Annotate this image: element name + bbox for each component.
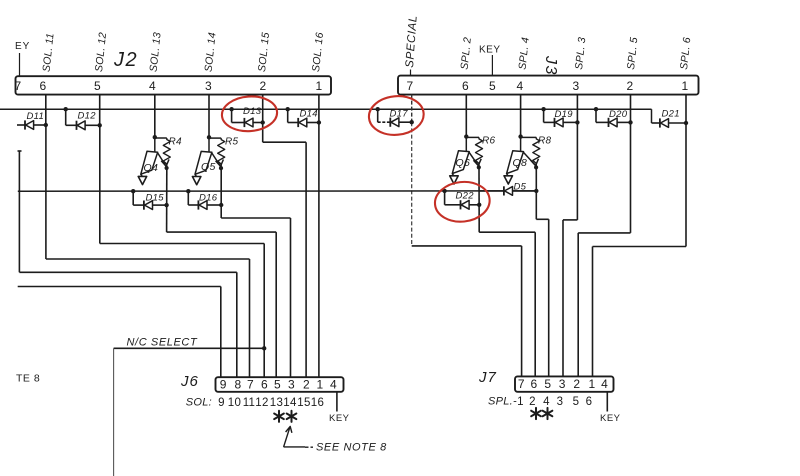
wire Q8 collector to J7 pin 5 [536,168,548,377]
svg-text:R5: R5 [225,137,239,148]
svg-text:4: 4 [149,79,156,93]
svg-text:9: 9 [218,397,225,409]
diode D16 [186,189,223,210]
svg-text:J3: J3 [542,55,559,76]
wire J3 pin 7 / SPECIAL wire [412,95,522,377]
label SOL.14 (rotated) [203,32,219,73]
wire J3 pin 4 stub [520,95,522,137]
svg-text:D19: D19 [555,109,574,120]
svg-text:J6: J6 [180,373,199,390]
label J7 [478,369,497,386]
connector J3 [398,76,699,95]
svg-text:1: 1 [517,396,524,408]
wire J2 pin 4 stub [154,95,156,138]
svg-text:R6: R6 [482,136,496,147]
label SPL.4 (rotated) [517,37,532,71]
svg-text:EY: EY [15,41,30,52]
svg-text:SPL.-: SPL.- [488,396,517,408]
diode D11 [17,111,48,130]
svg-text:5: 5 [94,79,101,93]
resistor R6 [466,136,495,168]
svg-text:5: 5 [274,378,281,392]
svg-text:7: 7 [407,79,414,93]
asterisks J6 (see note) [274,411,296,422]
wire J3 pin 1 wire [593,95,687,377]
wire N/C SELECT [114,346,267,476]
label J3 (rotated) [542,55,559,76]
svg-text:4: 4 [330,378,337,392]
diode D12 [63,107,101,130]
svg-text:D21: D21 [662,109,680,120]
wire J3 pin 3 wire [563,95,577,377]
label SOL.15 (rotated) [256,32,272,73]
diode D22 [442,189,481,210]
svg-text:TE 8: TE 8 [16,373,40,385]
svg-text:D20: D20 [609,109,628,120]
svg-text:11: 11 [243,397,256,409]
note arrow SEE NOTE 8 [284,426,387,453]
svg-text:7: 7 [518,377,525,391]
connector J2 [15,76,331,94]
svg-text:2: 2 [573,377,580,391]
wire J2 pin 5 stub [99,95,101,126]
svg-text:D16: D16 [199,193,218,204]
svg-text:SOL. 12: SOL. 12 [93,32,109,73]
svg-text:3: 3 [205,79,212,93]
svg-text:6: 6 [586,396,593,408]
svg-text:5: 5 [489,79,496,93]
resistor R8 [521,136,552,168]
label J6 SOL pin numbers [186,397,324,410]
wire J2 pin 2 jog to J6 pin 2 [263,123,306,378]
wire left line to J6 pin 9 [18,287,221,378]
wire Q4 collector to J6 pin 5 [167,169,277,378]
wire mid bus [18,190,537,192]
svg-text:Q8: Q8 [513,157,528,169]
label SPECIAL (rotated) [404,15,420,76]
label SPL.6 (rotated) [678,37,693,71]
svg-text:D15: D15 [146,193,165,204]
label J7 SPL pin numbers [488,396,592,409]
svg-text:SPL. 4: SPL. 4 [517,37,532,71]
transistor Q5 [192,135,223,185]
svg-text:D13: D13 [243,106,262,117]
svg-text:1: 1 [316,79,323,93]
svg-text:SPL. 3: SPL. 3 [573,37,588,71]
diode D20 [594,107,633,127]
resistor R4 [155,137,182,168]
connector J7 [515,376,614,391]
svg-text:D5: D5 [514,182,527,193]
diode D19 [541,107,579,127]
highlight circle around D13 [221,95,278,133]
label J6 [180,373,199,390]
label SOL.11 (rotated) [41,32,57,72]
svg-text:16: 16 [311,397,324,409]
svg-text:D17: D17 [390,109,409,120]
svg-text:4: 4 [543,396,550,408]
svg-text:SOL. 16: SOL. 16 [310,32,326,73]
svg-text:7: 7 [247,378,254,392]
svg-text:SPL. 2: SPL. 2 [459,37,474,71]
svg-text:4: 4 [601,377,608,391]
svg-text:J2: J2 [113,49,138,71]
svg-text:R4: R4 [169,137,183,148]
svg-text:3: 3 [573,79,580,93]
svg-text:14: 14 [283,397,297,409]
svg-text:2: 2 [303,378,310,392]
highlight circle around D22 [433,179,492,224]
diode D14 [286,107,322,127]
svg-text:D12: D12 [78,111,97,122]
svg-text:KEY: KEY [479,45,501,56]
transistor Q4 [138,135,169,185]
svg-text:J7: J7 [478,369,497,386]
svg-text:8: 8 [235,378,242,392]
diode D21 [652,109,689,128]
svg-text:15: 15 [297,397,310,409]
svg-text:6: 6 [531,377,538,391]
diode D13 [229,106,264,127]
wire J3 pin 6 stub [465,95,467,137]
highlight circle around D17 [367,94,425,137]
svg-text:SOL. 14: SOL. 14 [203,32,219,73]
svg-text:10: 10 [228,397,241,409]
svg-text:6: 6 [462,79,469,93]
wire J2 pin 1 wire [318,95,320,378]
svg-text:13: 13 [270,397,283,409]
diode D5 [479,182,538,196]
svg-text:2: 2 [529,396,536,408]
svg-text:N/C SELECT: N/C SELECT [127,337,198,349]
svg-text:R8: R8 [538,136,552,147]
svg-text:6: 6 [40,79,47,93]
label J6 KEY [329,392,350,424]
svg-text:5: 5 [573,396,580,408]
svg-text:SOL. 13: SOL. 13 [148,32,164,73]
label J7 KEY [600,392,621,424]
svg-text:D14: D14 [300,109,318,120]
svg-text:3: 3 [557,396,564,408]
svg-text:SPL. 5: SPL. 5 [625,37,640,71]
diode D17 [376,107,414,127]
svg-text:D11: D11 [27,111,45,122]
label KEY (J2 pin 7) [15,41,30,76]
svg-text:5: 5 [544,377,551,391]
label J2 [113,49,138,71]
svg-text:SPL. 6: SPL. 6 [678,37,693,71]
svg-text:1: 1 [317,378,324,392]
wire top bus [0,109,652,123]
wire J2 pin 6 stub [45,95,47,125]
svg-text:SEE NOTE 8: SEE NOTE 8 [316,442,387,454]
svg-text:1: 1 [589,377,596,391]
svg-text:3: 3 [288,378,295,392]
wire J2 pin 2 stub [262,95,264,123]
transistor Q6 [450,134,482,184]
svg-text:SOL. 15: SOL. 15 [256,32,272,73]
label SOL.12 (rotated) [93,32,109,73]
label N/C SELECT [127,337,198,349]
svg-text:KEY: KEY [329,413,350,424]
note TE B (cut off) [16,373,40,385]
wire Q5 collector to J6 pin 3 [221,169,290,378]
asterisks J7 (see note) [531,408,552,419]
svg-text:Q5: Q5 [201,161,216,173]
label SPL.3 (rotated) [573,37,588,71]
svg-text:2: 2 [627,79,634,93]
wire J2 pin 3 stub [208,95,210,138]
svg-text:4: 4 [517,79,524,93]
svg-text:SPECIAL: SPECIAL [404,15,420,68]
connector J6 [216,377,344,392]
svg-text:KEY: KEY [600,413,621,424]
svg-text:SOL. 11: SOL. 11 [41,32,57,72]
label SPL.2 (rotated) [459,37,474,71]
label SOL.16 (rotated) [310,32,326,73]
svg-text:D22: D22 [456,191,475,202]
svg-text:SOL:: SOL: [186,397,212,409]
transistor Q8 [504,134,539,184]
wire J2 pin 6 to J6 pin 7 [46,125,250,378]
svg-text:6: 6 [261,378,268,392]
svg-text:3: 3 [559,377,566,391]
svg-text:9: 9 [220,378,227,392]
wire J2 pin 5 to J6 pin 6 [100,125,264,377]
svg-text:Q6: Q6 [456,157,471,169]
resistor R5 [209,137,239,168]
svg-text:1: 1 [682,79,689,93]
svg-text:Q4: Q4 [144,162,159,174]
label SPL.5 (rotated) [625,37,640,71]
svg-text:2: 2 [260,79,267,93]
svg-text:7: 7 [15,79,22,93]
label KEY (J3 pin 5) [479,45,501,76]
label SOL.13 (rotated) [148,32,164,73]
svg-text:12: 12 [255,397,268,409]
wire left line to J6 pin 8 [18,151,237,378]
diode D15 [131,189,169,210]
wire J3 pin 2 wire [578,95,630,377]
wire Q6 collector to J7 pin 6 [479,168,535,377]
